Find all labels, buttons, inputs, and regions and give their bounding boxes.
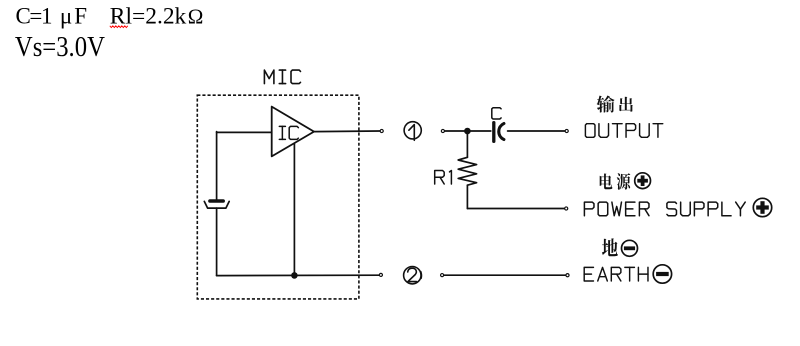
wire (ground bus inside MIC) xyxy=(217,274,380,276)
microphone enclosure (dashed box) xyxy=(197,95,359,299)
svg-text:Ω: Ω xyxy=(188,4,204,28)
terminal pad (pin 2 left) xyxy=(379,273,382,276)
label 电源 (power, Chinese) xyxy=(600,174,613,190)
terminal pad (pin 1 right) xyxy=(441,129,444,132)
terminal pad (earth) xyxy=(566,274,569,277)
wire (power supply) xyxy=(467,208,564,210)
label EARTH xyxy=(584,267,593,281)
svg-text:Rl=2.2k: Rl=2.2k xyxy=(110,3,187,28)
wire (IC output) xyxy=(314,130,380,133)
label 地 (earth, Chinese) xyxy=(602,238,618,256)
wire (left vertical lower) xyxy=(216,208,218,276)
node junction at ground bus xyxy=(291,272,298,279)
label 输出 (output, Chinese) xyxy=(597,96,615,113)
terminal pad (pin 1 left) xyxy=(380,129,383,132)
node junction at R1/C xyxy=(464,128,471,135)
wire (C to output pad) xyxy=(508,130,565,132)
terminal pad (output) xyxy=(565,129,568,132)
wire (left vertical upper) xyxy=(216,132,218,200)
plus symbol (large) xyxy=(753,198,771,216)
minus symbol (large) xyxy=(653,265,671,283)
svg-text:F: F xyxy=(74,3,87,28)
label POWER SUPPLY xyxy=(584,202,594,216)
label C xyxy=(492,108,501,119)
pin number 2 (circled) xyxy=(404,267,421,284)
wire (IC bottom to ground bus) xyxy=(293,143,295,275)
wire (input to IC) xyxy=(217,131,272,133)
spellcheck squiggle under Rl xyxy=(110,26,128,28)
op-amp U1 (IC) xyxy=(272,107,314,157)
resistor R1 xyxy=(458,157,476,185)
terminal pad (power supply) xyxy=(565,207,568,210)
minus symbol (small) xyxy=(622,240,638,256)
capacitor C curved plate xyxy=(499,124,504,140)
wire (earth) xyxy=(444,274,565,276)
plus symbol (small) xyxy=(635,173,651,189)
pin number 1 (circled) xyxy=(404,122,421,139)
label MIC xyxy=(264,70,274,84)
electret capsule element xyxy=(210,199,223,203)
terminal pad (pin 2 right) xyxy=(441,274,444,277)
svg-text:Vs=3.0V: Vs=3.0V xyxy=(15,32,105,63)
svg-text:μ: μ xyxy=(60,3,72,28)
svg-text:C=1: C=1 xyxy=(16,3,53,28)
label OUTPUT xyxy=(585,124,595,138)
wire (R1 to power wire) xyxy=(466,185,468,208)
label R1 xyxy=(435,171,445,185)
wire (pin1 to node) xyxy=(445,130,491,132)
wire (node to R1) xyxy=(466,131,468,157)
capacitor C plate xyxy=(492,123,495,142)
label IC xyxy=(279,125,285,127)
